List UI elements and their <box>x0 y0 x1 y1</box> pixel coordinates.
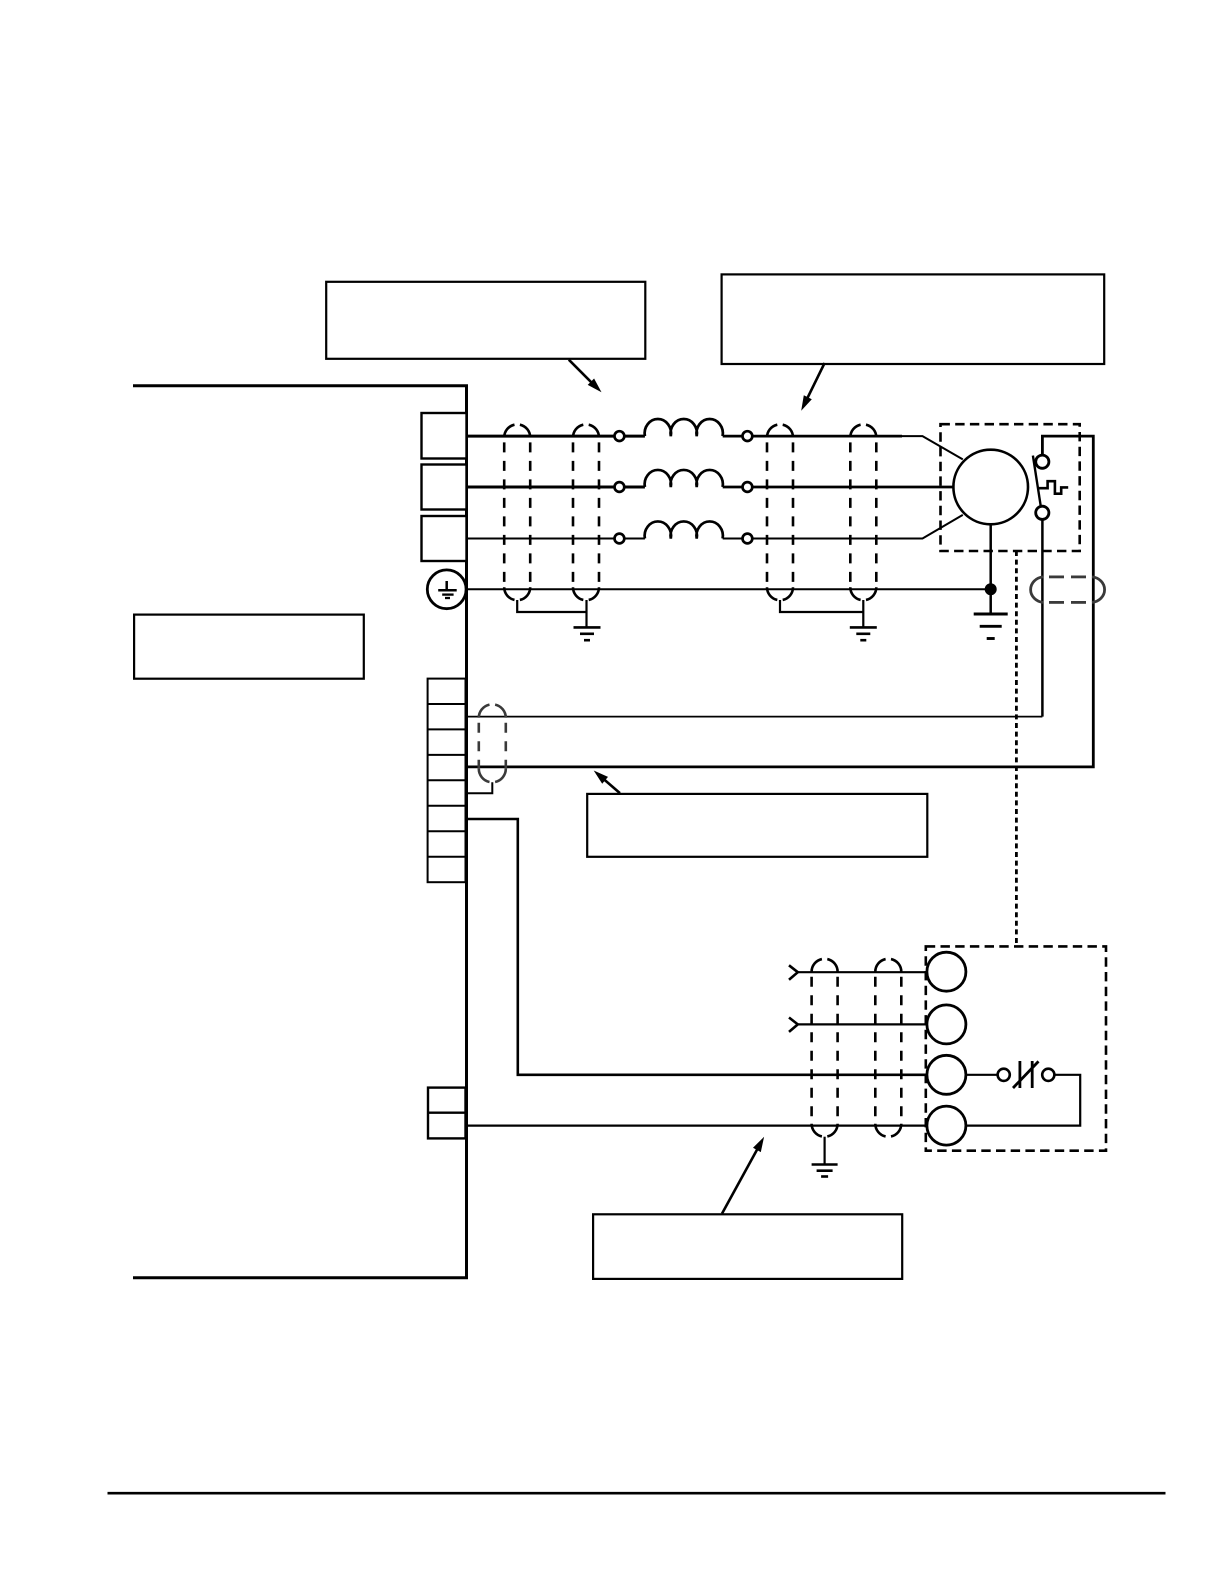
shield oval 7 (encoder cable shield) <box>812 959 838 1136</box>
shield drain wire (control cable to terminal) <box>466 782 492 793</box>
shield oval 3 (cable shield near motor) <box>767 425 793 600</box>
drive ground terminal (circle with earth symbol) <box>427 570 466 609</box>
wire from pin 3 through NC contact to pin 4 <box>966 1075 1080 1126</box>
arrowhead w1 <box>789 965 798 979</box>
terminal circle W-left <box>615 534 625 544</box>
power terminal R <box>422 413 467 459</box>
inductor L1 (phase U choke) <box>645 419 723 436</box>
shield oval 8 (encoder cable shield) <box>875 959 901 1136</box>
terminal circle U-right <box>743 431 753 441</box>
inductor L2 (phase V choke) <box>645 470 723 487</box>
terminal circle W-right <box>743 534 753 544</box>
wire U (phase output) <box>464 435 645 438</box>
shield drain wire (encoder cable) <box>823 1137 825 1164</box>
power terminal S <box>422 465 467 510</box>
thermal switch lever <box>1033 456 1041 507</box>
shield drain wire pair 1 <box>517 600 586 627</box>
shield oval 6 (horizontal, brake wires) <box>1031 577 1105 603</box>
thermal sensor symbol (step) <box>1038 481 1068 494</box>
terminal circle U-left <box>615 431 625 441</box>
callout box 2 (upper right, empty label box) <box>722 274 1105 364</box>
footer rule <box>108 1492 1166 1495</box>
connector pin circle 3 <box>927 1055 966 1094</box>
wire B (brake supply: terminal to top of switch) <box>464 436 1093 767</box>
control terminal strip (8 cells) <box>428 679 466 883</box>
feedback cable dashed line (motor to encoder connector) <box>1015 551 1018 946</box>
ground symbol (motor frame) <box>974 614 1008 639</box>
inductor L3 (phase W choke) <box>645 521 723 538</box>
ground symbol (shield pair 1) <box>574 627 601 640</box>
shield oval 1 (cable shield near drive) <box>504 425 530 600</box>
wire V (phase output) <box>464 486 645 489</box>
ground symbol (encoder shield) <box>812 1165 838 1177</box>
arrow from callout box 4 <box>722 1137 764 1214</box>
power terminal T <box>422 516 467 561</box>
motor M <box>953 450 1028 525</box>
lower terminal block (2 cells) <box>428 1088 466 1139</box>
shield drain wire pair 2 <box>780 600 863 627</box>
wire D (from lower terminal block to connector pin 4) <box>464 1124 927 1126</box>
wire w1 (feedback signal with arrowhead) <box>798 971 927 973</box>
callout box 1 (upper left, empty label box) <box>326 282 645 359</box>
junction dot (motor PE node) <box>985 583 997 595</box>
shield oval 2 (cable shield near drive) <box>573 425 599 600</box>
connector pin circle 1 <box>927 952 966 991</box>
NC thermal contact circles <box>998 1069 1010 1081</box>
terminal circle V-left <box>615 482 625 492</box>
connector pin circle 2 <box>927 1005 966 1044</box>
terminal circle V-right <box>743 482 753 492</box>
arrow from callout box 3 <box>594 771 620 794</box>
connector pin circle 4 <box>927 1106 966 1145</box>
shield oval 5 (control cable shield) <box>479 705 506 782</box>
encoder connector dashed box <box>926 946 1106 1150</box>
wire C (encoder signal from drive, down and right to connector) <box>464 819 927 1075</box>
label box (left, empty) <box>134 615 364 679</box>
wire w2 (feedback signal with arrowhead) <box>798 1023 927 1025</box>
motor unit dashed box <box>941 424 1080 551</box>
shield oval 4 (cable shield near motor) <box>850 425 876 600</box>
callout box 4 (bottom, empty label box) <box>593 1214 902 1279</box>
wire motor frame to ground <box>989 524 992 614</box>
arrow from callout box 1 <box>569 360 602 393</box>
callout box 3 (middle, empty label box) <box>587 794 927 857</box>
NC contact bars and slash <box>1013 1061 1039 1088</box>
arrow from callout box 2 <box>801 363 824 411</box>
drive enclosure outline (open at left) <box>133 386 467 1278</box>
wire PE (ground wire to motor) <box>464 588 991 590</box>
wire W (phase output) <box>464 538 645 540</box>
thermal switch contact circles <box>1036 455 1049 468</box>
ground symbol (shield pair 2) <box>850 627 877 640</box>
wire A (brake control, lower terminal to switch) <box>464 716 1042 718</box>
arrowhead w2 <box>789 1018 798 1032</box>
